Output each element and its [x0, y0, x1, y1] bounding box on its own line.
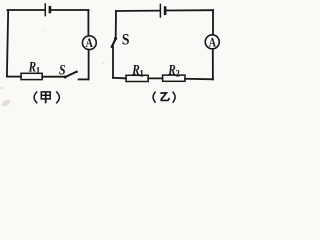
svg-text:A: A [209, 35, 216, 49]
svg-text:S: S [122, 31, 130, 48]
svg-text:1: 1 [36, 65, 41, 75]
svg-text:1: 1 [139, 69, 144, 79]
svg-text:S: S [59, 62, 66, 78]
svg-text:A: A [86, 36, 93, 50]
svg-text:2: 2 [175, 69, 180, 79]
